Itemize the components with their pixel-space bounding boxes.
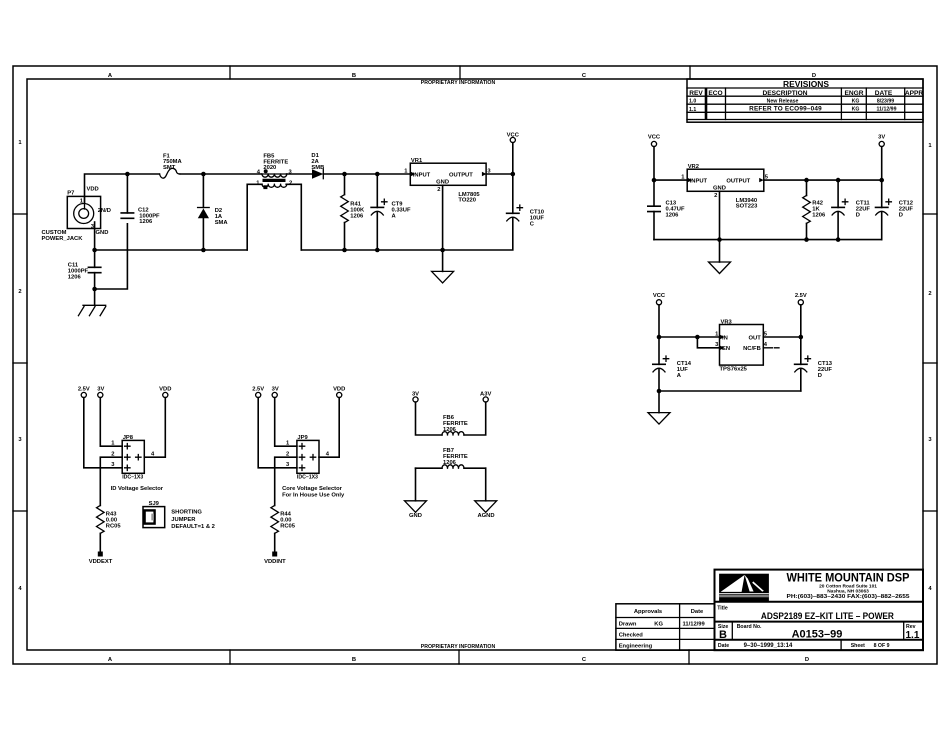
power terminal A3V	[483, 397, 488, 402]
svg-text:2: 2	[18, 289, 21, 295]
svg-text:1206: 1206	[812, 213, 826, 219]
node VR3 gnd	[657, 389, 662, 394]
svg-text:DEFAULT=1 & 2: DEFAULT=1 & 2	[171, 524, 215, 530]
wire VDD to JP8 pin 4	[144, 398, 165, 458]
svg-text:D: D	[818, 373, 822, 379]
power terminal 3V	[98, 392, 103, 397]
svg-text:VDDINT: VDDINT	[264, 559, 286, 565]
svg-text:Date: Date	[691, 609, 704, 615]
wire gnd stub	[658, 391, 660, 413]
svg-text:2020: 2020	[263, 165, 276, 171]
ground symbol VR3	[648, 413, 670, 425]
wire 3V stub	[881, 147, 883, 181]
svg-text:KG: KG	[852, 107, 860, 113]
wire 2.5V to JP8 pin 3	[84, 398, 122, 468]
svg-text:Approvals: Approvals	[634, 609, 662, 615]
svg-text:2N/D: 2N/D	[98, 208, 111, 214]
svg-text:Title: Title	[717, 606, 728, 612]
svg-text:Date: Date	[718, 643, 729, 649]
svg-text:OUT: OUT	[749, 335, 762, 341]
svg-text:2: 2	[928, 291, 931, 297]
company logo White Mountain DSP	[719, 574, 769, 602]
svg-text:2.5V: 2.5V	[795, 293, 807, 299]
svg-text:Rev: Rev	[906, 624, 916, 630]
node EN branch	[695, 335, 700, 340]
power terminal 2.5V	[81, 392, 86, 397]
svg-text:WHITE MOUNTAIN DSP: WHITE MOUNTAIN DSP	[787, 571, 910, 585]
wire JP8 pin 2 to R43	[100, 457, 122, 505]
wire VCC to VR2 input	[654, 147, 687, 181]
svg-text:GND: GND	[409, 513, 422, 519]
zone tick left 1|2	[13, 213, 27, 215]
svg-text:EN: EN	[722, 346, 730, 352]
svg-text:Board No.: Board No.	[737, 624, 762, 630]
ground symbol GND	[405, 501, 427, 513]
node VCC / CT10 top	[511, 172, 516, 177]
voltage regulator VR1 LM7805	[404, 158, 491, 204]
header JP9 IDC-1X3	[282, 435, 345, 499]
svg-text:REVISIONS: REVISIONS	[783, 79, 829, 89]
svg-text:IN: IN	[722, 335, 728, 341]
wire JP9 pin 2 to R44	[275, 457, 297, 505]
svg-text:SMA: SMA	[215, 220, 229, 226]
ground symbol VR2	[709, 262, 731, 274]
svg-text:REV: REV	[689, 90, 703, 97]
node jack GND / ground rail	[92, 248, 97, 253]
wire VDD to JP9 pin 4	[319, 398, 339, 458]
svg-text:RC05: RC05	[106, 523, 122, 529]
wire VCC to VR3 IN	[659, 305, 720, 337]
wire VR2 output rail to 3V	[764, 179, 882, 181]
zone tick bottom A|B	[229, 650, 231, 664]
wire NC/FB no-connect stub	[763, 347, 779, 349]
svg-text:GND: GND	[96, 230, 109, 236]
svg-text:1206: 1206	[139, 219, 153, 225]
svg-text:SOT223: SOT223	[736, 204, 758, 210]
svg-text:D: D	[805, 657, 809, 663]
svg-text:3V: 3V	[272, 387, 279, 393]
svg-text:OUTPUT: OUTPUT	[726, 179, 750, 185]
wire ground rail left segment	[95, 249, 248, 251]
svg-text:REFER TO ECO99–049: REFER TO ECO99–049	[749, 106, 822, 113]
terminal VDDEXT	[98, 552, 103, 557]
node CT11 top	[836, 178, 841, 183]
capacitor CT12	[876, 180, 914, 240]
svg-text:1206: 1206	[443, 460, 457, 466]
capacitor C11	[68, 250, 101, 289]
wire VR3 ground rail	[659, 390, 801, 392]
capacitor CT14	[653, 337, 692, 391]
svg-text:PH:(603)–883–2430 FAX:(603)–88: PH:(603)–883–2430 FAX:(603)–882–2655	[787, 594, 911, 600]
svg-text:VR1: VR1	[411, 158, 423, 164]
wire FB7 left to GND	[415, 468, 417, 501]
power jack P7	[42, 187, 111, 243]
fuse F1	[160, 168, 181, 178]
capacitor CT11	[832, 180, 871, 240]
zone tick bottom C|D	[688, 650, 690, 664]
svg-text:APPR: APPR	[905, 90, 924, 97]
svg-text:New Release: New Release	[767, 99, 799, 105]
revisions table	[687, 79, 923, 122]
svg-text:POWER_JACK: POWER_JACK	[42, 236, 84, 242]
power terminal VCC (VR3 input)	[656, 300, 661, 305]
wire C11 bottom to C12 bottom	[95, 224, 128, 289]
wire VR3 OUT to 2.5V	[763, 336, 801, 338]
svg-text:Core Voltage Selector: Core Voltage Selector	[282, 486, 343, 492]
voltage regulator VR3 TPS76x25	[715, 319, 768, 372]
node VR1 gnd on rail	[440, 248, 445, 253]
svg-text:1.1: 1.1	[906, 630, 920, 641]
zone tick top B|C	[459, 66, 461, 79]
svg-text:8 OF 9: 8 OF 9	[874, 643, 890, 649]
svg-text:1206: 1206	[443, 427, 457, 433]
svg-text:IDC–1X3: IDC–1X3	[122, 474, 143, 480]
svg-text:3V: 3V	[97, 387, 104, 393]
ferrite bead FB6	[416, 402, 486, 435]
svg-text:3V: 3V	[412, 391, 419, 397]
power terminal 2.5V	[256, 392, 261, 397]
wire FB7 right to AGND	[485, 468, 487, 501]
svg-text:VCC: VCC	[507, 133, 520, 139]
svg-text:IDC–1X3: IDC–1X3	[297, 474, 318, 480]
svg-text:RC05: RC05	[280, 523, 296, 529]
node VR2 gnd on rail	[717, 237, 722, 242]
resistor R43	[97, 505, 122, 551]
node C11 bottom / earth	[92, 287, 97, 292]
svg-text:8/23/99: 8/23/99	[877, 99, 894, 105]
resistor R42	[803, 180, 826, 240]
wire 2.5V stub	[800, 305, 802, 337]
ferrite bead FB7	[416, 448, 486, 468]
svg-text:B: B	[719, 629, 727, 641]
wire FB5 bottom winding leads	[247, 184, 301, 250]
zone tick top A|B	[229, 66, 231, 79]
wire 3V to JP8 pin 1	[100, 398, 122, 447]
title block frame	[715, 570, 924, 651]
svg-text:SMT: SMT	[163, 165, 176, 171]
zone tick right 2|3	[923, 362, 937, 364]
zone tick bottom B|C	[458, 650, 460, 664]
node C12 top	[125, 172, 130, 177]
power terminal VCC	[510, 137, 515, 142]
svg-text:D: D	[856, 213, 860, 219]
svg-text:JP9: JP9	[297, 435, 308, 441]
wire top rail from jack VDD to F1	[85, 174, 160, 203]
svg-text:3V: 3V	[878, 135, 885, 141]
zone tick left 3|4	[13, 510, 27, 512]
wire VR2 ground rail	[654, 239, 882, 241]
power terminal 2.5V	[798, 300, 803, 305]
capacitor C12	[121, 174, 160, 225]
power terminal VDD	[163, 392, 168, 397]
svg-text:9–30–1999_13:14: 9–30–1999_13:14	[744, 643, 793, 649]
svg-text:2: 2	[111, 452, 114, 458]
svg-text:1206: 1206	[666, 213, 680, 219]
svg-text:ADSP2189 EZ–KIT LITE – POWER: ADSP2189 EZ–KIT LITE – POWER	[761, 610, 894, 621]
node CT9 top	[375, 172, 380, 177]
zone tick left 2|3	[13, 362, 27, 364]
resistor R44	[271, 505, 296, 551]
sheet inner border frame	[27, 79, 923, 650]
svg-text:TPS76x25: TPS76x25	[720, 366, 748, 372]
wire F1 to FB5 pin 4	[180, 173, 262, 175]
shorting jumper SJ9	[143, 501, 215, 530]
terminal VDDINT	[272, 552, 277, 557]
node C13 top	[652, 178, 657, 183]
power terminal 3V	[272, 392, 277, 397]
resistor R41	[341, 174, 365, 250]
sheet outer border frame	[13, 66, 937, 664]
svg-text:P7: P7	[67, 191, 74, 197]
capacitor CT13	[795, 337, 833, 391]
svg-text:B: B	[352, 657, 356, 663]
svg-text:VDD: VDD	[333, 387, 345, 393]
power terminal 3V	[879, 141, 884, 146]
svg-text:JP8: JP8	[123, 435, 134, 441]
zone tick right 1|2	[923, 213, 937, 215]
power terminal VDD	[337, 392, 342, 397]
svg-text:Drawn: Drawn	[619, 621, 637, 627]
svg-text:VR2: VR2	[688, 164, 699, 170]
capacitor C13	[648, 180, 685, 240]
svg-text:INPUT: INPUT	[690, 179, 708, 185]
svg-text:2.5V: 2.5V	[252, 387, 264, 393]
ground symbol VR1	[432, 271, 454, 283]
power terminal 3V	[413, 397, 418, 402]
earth chassis ground	[78, 289, 105, 316]
node D2 anode on ground rail	[201, 248, 206, 253]
node CT12 top / 3V	[879, 178, 884, 183]
svg-text:ENGR: ENGR	[844, 90, 863, 97]
svg-text:TO220: TO220	[458, 198, 476, 204]
svg-text:KG: KG	[852, 99, 860, 105]
wire EN branch	[697, 337, 719, 348]
svg-text:VDD: VDD	[159, 387, 171, 393]
svg-text:1206: 1206	[350, 214, 364, 220]
wire FB5 pin3 to D1	[287, 173, 313, 175]
svg-text:2: 2	[437, 187, 440, 193]
svg-text:A3V: A3V	[480, 391, 491, 397]
approvals table	[616, 604, 715, 650]
wire 2.5V to JP9 pin 3	[258, 398, 297, 468]
svg-text:JUMPER: JUMPER	[171, 517, 196, 523]
zone tick top C|D	[689, 66, 691, 79]
svg-text:SHORTING: SHORTING	[171, 510, 202, 516]
svg-text:2: 2	[714, 193, 717, 199]
svg-text:ECO: ECO	[708, 90, 722, 97]
node R42 top	[804, 178, 809, 183]
svg-text:Engineering: Engineering	[619, 643, 653, 649]
svg-text:OUTPUT: OUTPUT	[449, 173, 473, 179]
svg-text:A0153–99: A0153–99	[792, 629, 843, 641]
svg-text:For In House Use Only: For In House Use Only	[282, 493, 345, 499]
svg-text:B: B	[352, 73, 356, 79]
wire ground rail right segment	[301, 218, 513, 250]
svg-text:VDDEXT: VDDEXT	[89, 559, 113, 565]
ferrite common-mode choke FB5	[256, 154, 292, 190]
svg-text:11/12/99: 11/12/99	[877, 107, 897, 113]
svg-text:2: 2	[286, 452, 289, 458]
wire jack pin 3 to ground rail	[94, 222, 96, 250]
wire VR2 GND pin down	[719, 191, 721, 262]
svg-text:DESCRIPTION: DESCRIPTION	[762, 90, 807, 97]
voltage regulator VR2 LM3940	[681, 164, 768, 210]
wire D1 cathode to VR1 input	[323, 173, 410, 175]
node CT13 top / 2.5V	[799, 335, 804, 340]
svg-text:1.1: 1.1	[689, 107, 696, 113]
ground symbol AGND	[475, 501, 497, 513]
node CT11 bottom	[836, 237, 841, 242]
svg-text:11/12/99: 11/12/99	[683, 621, 706, 627]
node CT9 bottom	[375, 248, 380, 253]
svg-text:ID Voltage Selector: ID Voltage Selector	[111, 486, 164, 492]
wire VCC stub	[512, 143, 514, 174]
node R41 top	[342, 172, 347, 177]
capacitor CT10	[507, 174, 545, 227]
svg-text:SMB: SMB	[311, 165, 324, 171]
svg-text:1206: 1206	[68, 275, 82, 281]
svg-text:VR3: VR3	[721, 319, 733, 325]
svg-text:2.5V: 2.5V	[78, 387, 90, 393]
svg-text:D: D	[899, 213, 903, 219]
node R42 bottom	[804, 237, 809, 242]
svg-text:SJ9: SJ9	[149, 501, 160, 507]
svg-text:NC/FB: NC/FB	[743, 346, 761, 352]
svg-text:VDD: VDD	[87, 187, 99, 193]
svg-text:VCC: VCC	[653, 293, 666, 299]
node R41 bottom	[342, 248, 347, 253]
svg-text:PROPRIETARY INFORMATION: PROPRIETARY INFORMATION	[421, 644, 496, 650]
svg-text:DATE: DATE	[875, 90, 893, 97]
power terminal VCC (VR2 input)	[651, 141, 656, 146]
svg-text:Sheet: Sheet	[851, 643, 865, 649]
svg-text:VCC: VCC	[648, 135, 661, 141]
wire VR1 output to VCC node	[486, 173, 513, 175]
wire 3V to JP9 pin 1	[275, 398, 297, 447]
capacitor CT9	[371, 174, 411, 250]
diode D1	[311, 153, 324, 179]
node D2 cathode	[201, 172, 206, 177]
svg-text:1.0: 1.0	[689, 99, 696, 105]
svg-text:PROPRIETARY INFORMATION: PROPRIETARY INFORMATION	[421, 80, 496, 86]
svg-text:Checked: Checked	[619, 632, 644, 638]
diode D2	[198, 174, 229, 250]
zone tick right 3|4	[923, 510, 937, 512]
header JP8 IDC-1X3	[111, 435, 164, 492]
svg-text:KG: KG	[654, 621, 663, 627]
wire VR1 GND pin to ground	[442, 185, 444, 271]
node CT14 top	[657, 335, 662, 340]
svg-text:AGND: AGND	[477, 513, 494, 519]
svg-text:INPUT: INPUT	[413, 173, 431, 179]
